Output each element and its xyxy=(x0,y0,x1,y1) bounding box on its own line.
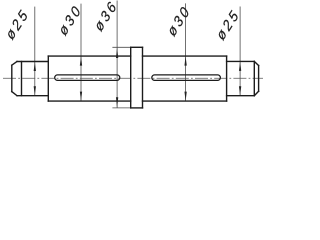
shoulder step 2 xyxy=(226,56,228,101)
dimension line d25 right xyxy=(239,7,241,96)
shaft outline xyxy=(12,47,259,108)
arrows d30 right xyxy=(184,56,186,65)
flange left edge xyxy=(130,47,132,108)
keyway slot right xyxy=(152,75,221,81)
d30 right top edge xyxy=(143,55,227,57)
d30 left top edge xyxy=(48,55,130,57)
left chamfer diagonals xyxy=(12,62,17,66)
flange right edge xyxy=(142,47,144,108)
d25 left bottom edge xyxy=(17,95,48,97)
left end face xyxy=(11,65,13,91)
svg-text:ø25: ø25 xyxy=(2,5,32,43)
dimension line d36 xyxy=(116,1,118,108)
d25 right top edge xyxy=(227,60,255,62)
extension lines d36 xyxy=(112,46,130,48)
svg-text:ø25: ø25 xyxy=(213,5,243,43)
right chamfer edge line xyxy=(253,61,255,95)
svg-text:ø36: ø36 xyxy=(91,0,121,34)
svg-text:ø30: ø30 xyxy=(55,1,85,39)
dimension line d30 right xyxy=(185,3,187,101)
arrows d36 xyxy=(116,48,118,59)
d30 right bottom edge xyxy=(143,100,227,102)
d25 right bottom edge xyxy=(227,95,255,97)
arrows d25 right xyxy=(239,62,241,71)
right end face xyxy=(258,66,260,92)
arrows d25 left xyxy=(34,62,36,71)
flange bottom edge xyxy=(131,107,143,109)
shoulder step 1 xyxy=(47,56,49,101)
d30 left bottom edge xyxy=(48,100,130,102)
d25 left top edge xyxy=(17,61,48,63)
flange top edge xyxy=(131,46,143,48)
dimension line d30 left xyxy=(80,4,82,101)
svg-text:ø30: ø30 xyxy=(164,1,194,39)
dimension line d25 left xyxy=(34,7,36,96)
arrows d30 left xyxy=(80,56,82,65)
centerline xyxy=(3,77,263,79)
right chamfer diagonals xyxy=(254,61,258,65)
left chamfer edge line xyxy=(21,62,23,96)
keyway slot left xyxy=(55,75,120,81)
